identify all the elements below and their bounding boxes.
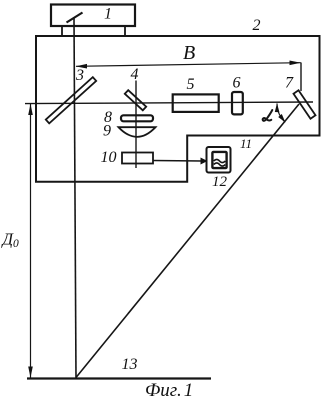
vertical beam from laser bbox=[74, 19, 76, 379]
diagonal beam to target bbox=[76, 104, 299, 378]
dimension B extension tick bbox=[300, 63, 302, 92]
dimension B line bbox=[76, 63, 301, 67]
detector 10 bbox=[122, 153, 153, 164]
indicator 12 outer box bbox=[207, 147, 231, 173]
element 6 bbox=[232, 92, 243, 114]
signal arrow 10 to 12 bbox=[153, 160, 202, 163]
ground reference line bbox=[27, 377, 211, 379]
mirror 7 bbox=[294, 90, 316, 118]
element 5 bbox=[173, 94, 219, 112]
dimension D0 line bbox=[30, 104, 32, 378]
vertical axis through 4,8,9,10 bbox=[135, 81, 137, 169]
dimension B left arrowhead bbox=[76, 64, 88, 69]
beamsplitter 4 bbox=[125, 90, 146, 110]
svg-text:13: 13 bbox=[122, 356, 138, 373]
dimension D0 bottom arrowhead bbox=[28, 367, 33, 378]
svg-text:11: 11 bbox=[240, 136, 252, 151]
svg-text:7: 7 bbox=[285, 75, 294, 92]
svg-text:В: В bbox=[183, 42, 195, 64]
svg-text:9: 9 bbox=[103, 123, 111, 140]
svg-text:4: 4 bbox=[131, 66, 139, 83]
angle arc arrowhead bottom bbox=[278, 114, 285, 123]
dimension D0 top arrowhead bbox=[28, 104, 33, 115]
indicator 12 scale waves bbox=[214, 159, 225, 162]
svg-text:10: 10 bbox=[101, 149, 117, 166]
angle alpha arc bbox=[277, 104, 285, 123]
svg-text:Фиг.1: Фиг.1 bbox=[145, 380, 193, 400]
label alpha bbox=[263, 110, 273, 121]
laser housing 1 bbox=[51, 5, 135, 27]
signal arrowhead bbox=[201, 158, 208, 165]
lens 9 bbox=[119, 127, 156, 137]
lens 8 bbox=[121, 115, 153, 121]
mount foot right bbox=[124, 26, 126, 36]
svg-text:2: 2 bbox=[253, 17, 261, 34]
angle arc arrowhead top bbox=[275, 103, 280, 112]
mirror 3 bbox=[46, 77, 96, 123]
svg-text:3: 3 bbox=[75, 67, 84, 84]
horizontal beam axis bbox=[25, 102, 313, 104]
laser brewster window stroke bbox=[67, 13, 83, 23]
dimension B right arrowhead bbox=[290, 61, 301, 66]
svg-text:12: 12 bbox=[212, 174, 228, 190]
svg-text:6: 6 bbox=[233, 75, 241, 92]
indicator 12 inner box bbox=[212, 152, 226, 168]
svg-text:1: 1 bbox=[104, 6, 112, 23]
svg-text:5: 5 bbox=[187, 76, 195, 93]
mount foot left bbox=[61, 26, 63, 36]
enclosure outline 2 bbox=[36, 36, 320, 182]
